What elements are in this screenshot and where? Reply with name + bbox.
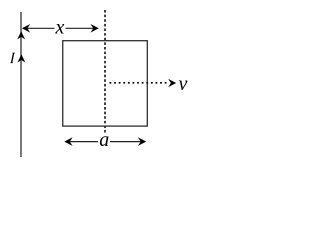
svg-text:a: a: [99, 129, 109, 151]
current arrowhead 2 on wire: [18, 54, 26, 62]
dimension arrow x: right arrowhead: [91, 24, 99, 33]
svg-text:v: v: [179, 73, 188, 95]
label I (current): [11, 53, 15, 63]
wire (current-carrying conductor): [20, 12, 22, 157]
velocity arrowhead: [168, 79, 176, 87]
dimension arrow a: line segments: [68, 141, 98, 143]
square loop: [63, 41, 148, 126]
svg-text:x: x: [55, 16, 65, 38]
dimension arrow x: line segments: [26, 27, 55, 29]
dashed center line (vertical axis of loop): [104, 10, 106, 133]
dimension arrow a: right arrowhead: [138, 137, 146, 146]
current arrowhead 1 on wire: [17, 31, 25, 39]
dimension arrow a: left arrowhead: [64, 137, 72, 146]
dimension arrow x: left arrowhead: [22, 24, 30, 33]
velocity dotted line: [110, 82, 168, 84]
